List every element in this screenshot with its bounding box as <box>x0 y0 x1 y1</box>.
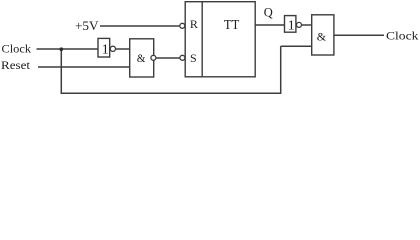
svg-text:1: 1 <box>102 42 109 57</box>
svg-text:Reset: Reset <box>1 59 31 72</box>
bubble at inverter U4 output <box>297 22 302 27</box>
svg-text:+5V: +5V <box>75 19 99 33</box>
wire AND1 output to S input <box>156 57 180 59</box>
svg-text:&: & <box>317 29 327 43</box>
bubble at and-gate U2 output <box>151 55 156 60</box>
node junction dot on Clock line <box>60 47 64 51</box>
wire inverter2 to AND2 <box>301 24 312 26</box>
svg-text:Q: Q <box>264 6 273 20</box>
wire right riser vertical <box>280 46 282 93</box>
inverter U1 box "1" <box>98 38 110 57</box>
wire riser to AND2 lower input <box>281 45 312 47</box>
bubble at inverter U1 output <box>110 46 115 51</box>
and-gate U2 box "&" <box>130 39 154 77</box>
wire AND2 output to Clock out <box>334 34 384 36</box>
svg-text:1: 1 <box>288 18 295 33</box>
svg-text:Clock: Clock <box>386 29 418 43</box>
svg-text:R: R <box>190 17 198 31</box>
wire junction drop vertical <box>60 49 62 93</box>
inverter U4 box "1" <box>285 16 296 33</box>
wire +5V to R input <box>100 25 180 27</box>
bubble at R input <box>180 23 185 28</box>
svg-text:S: S <box>190 51 197 65</box>
flip-flop U3 box TT <box>185 2 255 77</box>
wire Reset input <box>38 66 130 68</box>
and-gate U5 box "&" <box>312 15 334 55</box>
svg-text:TT: TT <box>224 17 240 32</box>
bubble at S input <box>180 55 185 60</box>
svg-text:&: & <box>137 53 146 65</box>
wire bottom feedback <box>61 92 282 94</box>
wire Clock input <box>37 48 99 50</box>
wire Q output <box>255 24 285 26</box>
flip-flop divider line <box>201 2 203 77</box>
wire inverter1 to AND1 <box>116 48 130 50</box>
svg-text:Clock: Clock <box>2 43 32 56</box>
